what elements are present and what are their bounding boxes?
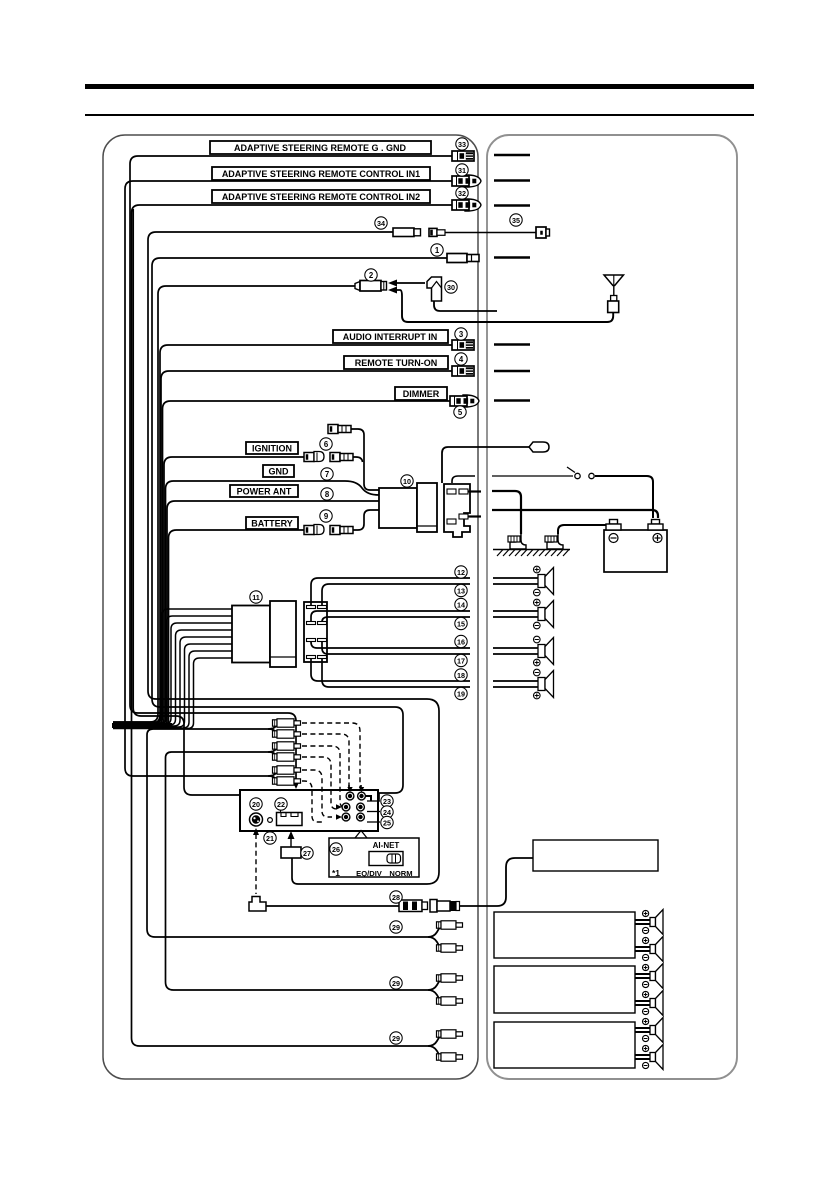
wire 15	[322, 617, 470, 622]
svg-text:AUDIO INTERRUPT IN: AUDIO INTERRUPT IN	[343, 332, 438, 342]
svg-text:22: 22	[277, 800, 285, 809]
svg-text:12: 12	[457, 568, 465, 577]
stub line for lead 32	[494, 204, 530, 206]
label box ADAPTIVE STEERING REMOTE CONTROL IN2	[212, 190, 430, 203]
wire 8 power-ant lead	[113, 501, 379, 728]
wire 35	[445, 232, 536, 234]
speaker A wires	[493, 577, 538, 579]
svg-text:25: 25	[383, 819, 391, 828]
node 10	[401, 475, 413, 487]
speaker D	[538, 678, 545, 691]
terminal 5	[450, 395, 479, 407]
vehicle connector housing	[444, 484, 470, 537]
arrowhead into rear-panel box top	[292, 780, 300, 789]
fan wire 2	[113, 616, 232, 723]
svg-text:33: 33	[458, 140, 466, 149]
jack label lines 23/24/25	[367, 800, 380, 802]
node 26	[330, 843, 342, 855]
wire 19	[322, 655, 470, 687]
dashed lead 6	[302, 781, 324, 822]
speaker D wires	[493, 680, 538, 682]
ignition switch wire thin	[492, 475, 573, 477]
node 13	[455, 584, 467, 596]
node 18	[455, 669, 467, 681]
socket on wire 2	[355, 282, 360, 291]
wire 7 gnd lead	[113, 481, 345, 727]
wire: inner trunk to rear-box left edge	[133, 209, 240, 795]
wire 16	[311, 640, 470, 648]
processor box in right panel	[533, 840, 658, 871]
lead to right panel box	[460, 858, 534, 906]
node 17	[455, 654, 467, 666]
svg-text:IGNITION: IGNITION	[252, 444, 292, 454]
inline connector female	[399, 900, 422, 912]
stub line for lead 1	[494, 256, 530, 258]
svg-text:29: 29	[392, 979, 400, 988]
svg-text:18: 18	[457, 671, 465, 680]
RCA plug 29a-2	[437, 944, 463, 952]
fan wire 7	[113, 651, 232, 728]
fan wire 5	[113, 637, 232, 726]
node 34	[375, 217, 387, 229]
pair 1 fork	[268, 723, 282, 729]
wire 12	[311, 578, 470, 605]
dashed lead 5	[302, 770, 332, 817]
inline connector male	[430, 900, 437, 913]
wire up to accessory plug	[442, 447, 533, 483]
label box AUDIO INTERRUPT IN	[333, 330, 448, 343]
amp box 2	[494, 966, 635, 1013]
svg-text:2: 2	[369, 271, 374, 280]
speaker C	[538, 645, 545, 658]
svg-text:29: 29	[392, 923, 400, 932]
wire 6 ignition lead	[113, 457, 304, 726]
node 32	[456, 187, 468, 199]
label box POWER ANT	[230, 485, 298, 497]
label box DIMMER	[395, 387, 447, 400]
fuse box 10 right section	[417, 483, 437, 532]
svg-text:ADAPTIVE STEERING REMOTE CONTR: ADAPTIVE STEERING REMOTE CONTROL IN1	[222, 169, 420, 179]
fan wire 1	[113, 609, 232, 722]
node 27	[301, 847, 313, 859]
connector 34 male half	[429, 228, 437, 236]
accessory plug	[529, 442, 549, 452]
fan wire 4	[113, 630, 232, 725]
wire 34: down trunk, wraps around AI-NET box to item 27	[148, 232, 439, 884]
chassis ground strip	[493, 550, 570, 557]
terminal 31	[452, 175, 481, 187]
svg-text:8: 8	[325, 490, 330, 499]
svg-text:29: 29	[392, 1034, 400, 1043]
label box GND	[263, 465, 294, 477]
RCA plug 29b-2	[437, 997, 463, 1005]
dashed lead 2	[302, 734, 349, 787]
svg-text:*1: *1	[332, 868, 340, 878]
node 29a	[390, 921, 402, 933]
battery - wire to chassis	[558, 525, 606, 534]
battery minus symbol	[609, 534, 618, 543]
dashed lead 1	[302, 723, 360, 787]
label box BATTERY	[246, 517, 298, 529]
speaker B	[538, 608, 545, 621]
top thin rule	[85, 114, 754, 116]
wire 17	[322, 640, 470, 654]
node 23	[381, 795, 393, 807]
label box ADAPTIVE STEERING REMOTE CONTROL IN1	[212, 167, 430, 180]
amp box 1	[494, 912, 635, 958]
node 30	[445, 281, 457, 293]
svg-text:23: 23	[383, 797, 391, 806]
svg-text:5: 5	[458, 408, 463, 417]
wire from item 30	[434, 301, 497, 311]
pair 2 fork	[268, 746, 282, 752]
RCA plug 1b	[273, 730, 301, 738]
head unit ground wire to chassis	[492, 491, 521, 534]
small hole (21)	[268, 818, 273, 823]
right angle plug	[249, 897, 266, 912]
item 30 right-angle antenna adapter	[427, 277, 442, 301]
svg-text:30: 30	[447, 283, 455, 292]
svg-text:4: 4	[459, 355, 464, 364]
wire from switch to battery +	[595, 476, 653, 518]
node 35	[510, 214, 522, 226]
dashed lead 3	[302, 746, 344, 807]
amp speaker 1b	[635, 937, 663, 962]
battery spade pair (item 9) left	[304, 525, 324, 535]
battery spade pair (item 9) right	[330, 526, 353, 535]
arrow 2 from vehicle antenna cable	[396, 290, 402, 310]
svg-text:13: 13	[457, 587, 465, 596]
row A fork	[428, 926, 444, 937]
terminal 3	[452, 340, 474, 350]
ground lug 2	[547, 534, 563, 549]
svg-text:31: 31	[458, 166, 466, 175]
wire 14	[311, 611, 470, 622]
spare spade pair above ignition	[328, 425, 351, 434]
svg-text:14: 14	[457, 601, 465, 610]
node 20	[250, 798, 262, 810]
node 7	[321, 468, 333, 480]
right panel	[487, 135, 737, 1079]
stub line for lead 33	[494, 154, 530, 156]
label box IGNITION	[246, 442, 298, 454]
speaker C wires	[493, 647, 538, 649]
node 33	[456, 138, 468, 150]
wire from spare pair into trunk	[351, 429, 379, 490]
svg-text:POWER ANT: POWER ANT	[237, 487, 292, 497]
gnd wire curve into fuse box	[345, 481, 379, 495]
svg-text:EQ/DIV: EQ/DIV	[356, 869, 383, 878]
switch contacts	[575, 473, 580, 478]
wire 4 lead	[113, 371, 452, 724]
wire from ignition pair joining trunk to fusebox	[353, 457, 363, 462]
wire up to ignition switch	[452, 476, 475, 483]
svg-text:DIMMER: DIMMER	[403, 389, 440, 399]
pair 3 fork	[268, 770, 282, 776]
amp speaker 3a	[635, 1018, 663, 1043]
ground lug 1	[510, 534, 526, 549]
stub line for lead 31	[494, 179, 530, 181]
node 22	[275, 798, 287, 810]
label box ADAPTIVE STEERING REMOTE G.GND	[210, 141, 431, 154]
node 3	[455, 328, 467, 340]
node 29b	[390, 977, 402, 989]
node 8	[321, 488, 333, 500]
node 11	[250, 591, 262, 603]
ignition spade pair (item 6) right	[330, 453, 353, 462]
stub line for lead 5	[494, 399, 530, 401]
RCA plug 29c-2	[437, 1053, 463, 1061]
svg-text:ADAPTIVE STEERING REMOTE G . G: ADAPTIVE STEERING REMOTE G . GND	[234, 143, 407, 153]
svg-text:REMOTE TURN-ON: REMOTE TURN-ON	[355, 358, 438, 368]
pin stubs rows	[307, 606, 327, 659]
wire 3 lead	[113, 345, 452, 723]
svg-text:35: 35	[512, 216, 520, 225]
connector 11 left block	[232, 606, 270, 663]
node 21	[264, 832, 276, 844]
node 29c	[390, 1032, 402, 1044]
node 2	[365, 269, 377, 281]
node 14	[455, 598, 467, 610]
node 24	[381, 806, 393, 818]
svg-text:10: 10	[403, 477, 411, 486]
wire 5 lead	[113, 401, 450, 725]
block body	[304, 602, 327, 662]
RCA plug 1a	[273, 719, 301, 727]
label box REMOTE TURN-ON	[344, 356, 448, 369]
cable	[266, 905, 399, 907]
dashed lead 4	[302, 757, 339, 809]
RCA plug 3a	[273, 766, 301, 774]
wire: RCA pair-2 lead down to row B	[166, 752, 429, 990]
battery plus post	[652, 520, 660, 525]
dashed lead from DIN jack	[255, 834, 257, 894]
svg-text:7: 7	[325, 470, 329, 479]
RCA plug 29b-1	[437, 974, 463, 982]
connector 34 female half	[393, 228, 414, 237]
speaker A	[538, 575, 545, 588]
battery minus post	[610, 520, 618, 525]
rear panel box	[240, 790, 378, 831]
wire 32: down to bottom row C lead	[132, 205, 455, 1046]
amp speaker 1a	[635, 910, 663, 935]
node 12	[455, 566, 467, 578]
wire 9 battery lead	[113, 530, 304, 728]
node 31	[456, 164, 468, 176]
terminal 32	[452, 199, 481, 211]
svg-text:32: 32	[458, 189, 466, 198]
node 15	[455, 617, 467, 629]
fan wire 6	[113, 644, 232, 727]
node 4	[455, 353, 467, 365]
amp speaker 3b	[635, 1045, 663, 1070]
svg-text:15: 15	[457, 620, 465, 629]
row C fork	[428, 1035, 444, 1046]
stub line for lead 3	[494, 343, 530, 345]
node 28	[390, 891, 402, 903]
wire 18	[311, 655, 470, 681]
left panel	[103, 135, 478, 1079]
arrow 1 into socket	[396, 282, 425, 284]
RCA plug 2a	[273, 742, 301, 750]
speaker B wires	[493, 610, 538, 612]
plug 35	[536, 227, 546, 238]
wire 2: down trunk into harness bundle	[113, 286, 355, 722]
fan wire 3	[113, 623, 232, 724]
svg-text:20: 20	[252, 800, 260, 809]
node 6	[320, 438, 332, 450]
rect connector (22)	[277, 813, 303, 826]
amp speaker 2b	[635, 991, 663, 1016]
ignition spade pair (item 6) left	[304, 452, 324, 462]
RCA plug 3b	[273, 777, 301, 785]
connector 11 right block	[270, 601, 296, 667]
svg-text:1: 1	[435, 246, 440, 255]
wire 1: antenna extension lead down trunk to rear-box right side	[152, 258, 447, 801]
wire 13	[322, 584, 470, 605]
jack elbow to wire 1 lead	[365, 796, 371, 801]
svg-text:17: 17	[457, 657, 465, 666]
wire 31: down to RCA pair-3 lead	[125, 181, 454, 776]
svg-text:6: 6	[324, 440, 329, 449]
svg-text:21: 21	[266, 834, 274, 843]
battery plus symbol	[653, 534, 662, 543]
fuse box 10 body	[379, 488, 417, 528]
node 25	[381, 816, 393, 828]
svg-text:ADAPTIVE STEERING REMOTE CONTR: ADAPTIVE STEERING REMOTE CONTROL IN2	[222, 192, 420, 202]
amp speaker 2a	[635, 964, 663, 989]
RCA plug 29a-1	[437, 921, 463, 929]
svg-text:AI-NET: AI-NET	[373, 841, 400, 850]
RCA jacks rows	[342, 792, 365, 821]
svg-text:34: 34	[377, 219, 385, 228]
terminal 33	[452, 151, 474, 161]
svg-text:28: 28	[392, 893, 400, 902]
node 16	[455, 635, 467, 647]
fan wire 8	[113, 658, 232, 729]
jack entry ticks	[336, 785, 364, 820]
row B fork	[428, 979, 444, 990]
node 9	[320, 510, 332, 522]
node 1	[431, 244, 443, 256]
top thick rule	[85, 84, 754, 89]
svg-text:3: 3	[459, 330, 464, 339]
svg-text:16: 16	[457, 638, 465, 647]
svg-text:27: 27	[303, 849, 311, 858]
svg-text:9: 9	[324, 512, 329, 521]
wire from battery pair up into fuse box	[353, 510, 379, 530]
svg-text:NORM: NORM	[389, 869, 412, 878]
node 5	[454, 406, 466, 418]
svg-text:GND: GND	[269, 467, 290, 477]
battery body	[604, 530, 667, 572]
node 19	[455, 687, 467, 699]
svg-text:11: 11	[252, 593, 260, 602]
DIN connector (20)	[250, 813, 263, 826]
svg-text:19: 19	[457, 690, 465, 699]
wire: RCA pair-1 lead down to row A	[147, 729, 428, 937]
harness bundle thick run	[112, 723, 172, 728]
battery + feed wire	[492, 510, 658, 518]
RCA plug 29c-1	[437, 1030, 463, 1038]
RCA plug 2b	[273, 753, 301, 761]
svg-text:BATTERY: BATTERY	[251, 519, 293, 529]
svg-text:24: 24	[383, 808, 391, 817]
stub line for lead 4	[494, 370, 530, 372]
terminal 4	[452, 366, 474, 376]
svg-text:26: 26	[332, 845, 340, 854]
wire 33: label GND lead, down left trunk, across to rear-box top arrow	[130, 156, 454, 784]
amp box 3	[494, 1022, 635, 1068]
